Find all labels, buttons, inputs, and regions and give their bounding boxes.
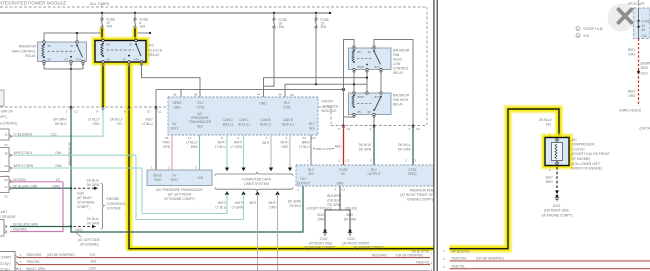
svg-text:20A: 20A xyxy=(140,25,147,29)
svg-text:PNK/: PNK/ xyxy=(163,141,171,145)
svg-text:ENGINE: ENGINE xyxy=(107,197,121,201)
svg-text:OUTPUT: OUTPUT xyxy=(297,182,310,186)
svg-text:RED/YEL: RED/YEL xyxy=(416,261,430,265)
svg-text:BLK/: BLK/ xyxy=(347,213,354,217)
svg-text:11: 11 xyxy=(188,136,191,140)
fuse 16 30A xyxy=(273,13,287,29)
svg-text:87A: 87A xyxy=(76,57,81,61)
svg-text:RADIATOR: RADIATOR xyxy=(393,94,410,98)
svg-text:C1: C1 xyxy=(4,143,8,147)
svg-text:RLY: RLY xyxy=(198,101,205,105)
svg-text:C3: C3 xyxy=(312,136,316,140)
svg-text:S217: S217 xyxy=(641,71,649,75)
bottom row 3 BLK/LT GRN Z169 xyxy=(18,266,433,271)
fuse 8 20A xyxy=(134,13,148,29)
svg-text:LANT: LANT xyxy=(0,210,7,214)
label A/C compressor clutch xyxy=(572,138,610,171)
svg-text:BLK/: BLK/ xyxy=(146,118,153,122)
wire LT BLU/BRN FCM sig to transducer xyxy=(186,135,199,170)
svg-text:N CONTROL: N CONTROL xyxy=(0,122,18,126)
svg-text:86: 86 xyxy=(48,44,52,48)
svg-text:87A: 87A xyxy=(134,58,139,62)
svg-text:RED/ORG: RED/ORG xyxy=(27,253,42,257)
module: radiator fan xyxy=(296,165,434,186)
svg-text:30: 30 xyxy=(368,110,372,114)
wire row lines to left connector xyxy=(10,155,142,188)
svg-text:18: 18 xyxy=(165,136,169,140)
svg-text:SENS: SENS xyxy=(153,174,162,178)
svg-text:DK BLU/YEL: DK BLU/YEL xyxy=(452,250,471,254)
svg-text:WHT/: WHT/ xyxy=(234,141,242,145)
svg-text:CONTROLS: CONTROLS xyxy=(107,202,127,206)
svg-text:EXCEPT POLICE: EXCEPT POLICE xyxy=(307,207,332,211)
svg-text:A-START: A-START xyxy=(0,256,11,260)
svg-text:DK GRN/: DK GRN/ xyxy=(288,199,301,203)
junction dots on IPM connector row y125.5 xyxy=(342,124,414,126)
svg-text:CLUTCH: CLUTCH xyxy=(149,48,163,52)
svg-text:FAN CONTROL: FAN CONTROL xyxy=(12,49,36,53)
wire fuse19 to relay coils xyxy=(285,28,367,97)
svg-text:(OR BLK/: (OR BLK/ xyxy=(327,199,341,203)
svg-text:LINES SYSTEM: LINES SYSTEM xyxy=(244,182,269,186)
fuse 22 40A xyxy=(101,13,115,29)
svg-text:26: 26 xyxy=(173,93,177,97)
CAN wires below brace xyxy=(136,155,280,271)
svg-text:C2: C2 xyxy=(346,159,350,163)
svg-text:RLY: RLY xyxy=(308,168,315,172)
svg-text:GRN: GRN xyxy=(163,145,171,149)
svg-text:AWD & 6.5L: AWD & 6.5L xyxy=(316,147,333,151)
svg-text:CAN B: CAN B xyxy=(283,118,293,122)
wire BLK/BRN clutch to ground xyxy=(546,167,559,194)
svg-text:YEL: YEL xyxy=(116,122,122,126)
svg-text:SPLY: SPLY xyxy=(171,127,180,131)
svg-text:EARLY BUILD: EARLY BUILD xyxy=(620,109,642,113)
junction dots on IPM connector row y107 xyxy=(70,106,157,108)
svg-text:CONTROL: CONTROL xyxy=(322,104,339,108)
svg-text:DK GRN: DK GRN xyxy=(398,148,411,152)
svg-text:ENGINE COMPT): ENGINE COMPT) xyxy=(407,197,433,201)
coolant temperature sensor (left clipped) xyxy=(0,210,38,236)
svg-text:(AT RIGHT FRONT OF: (AT RIGHT FRONT OF xyxy=(400,193,433,197)
svg-text:(AT LEFT SIDE: (AT LEFT SIDE xyxy=(78,238,100,242)
svg-text:87: 87 xyxy=(123,58,127,62)
wire DK BLU/DK GRN rly output xyxy=(359,126,374,166)
svg-text:LT BLU/: LT BLU/ xyxy=(186,141,198,145)
svg-text:RADIATOR: RADIATOR xyxy=(393,49,410,53)
svg-text:DK BLU/: DK BLU/ xyxy=(539,118,552,122)
svg-text:ORG: ORG xyxy=(92,122,100,126)
wire DK BLU/DK GRN ctrl feed xyxy=(398,126,413,166)
svg-text:RED/: RED/ xyxy=(628,48,636,52)
svg-text:MPT): MPT) xyxy=(0,115,7,119)
svg-text:CAN C: CAN C xyxy=(239,118,250,122)
svg-text:SYSTEM: SYSTEM xyxy=(107,207,121,211)
svg-text:DK GRN: DK GRN xyxy=(87,221,100,225)
svg-text:CTRL: CTRL xyxy=(408,168,417,172)
svg-text:RLY: RLY xyxy=(301,177,308,181)
label radiator fan xyxy=(400,188,433,201)
wire DK GRN/DK BLU main vertical xyxy=(70,107,72,228)
label radiator fan control relay xyxy=(12,45,37,59)
svg-text:G101: G101 xyxy=(347,237,355,241)
svg-text:30: 30 xyxy=(129,43,133,47)
right page: dashed lead above fuse xyxy=(638,0,640,8)
svg-text:85: 85 xyxy=(358,110,362,114)
bottom row 2 RED/YEL A23 xyxy=(18,260,433,265)
svg-text:6.5L: 6.5L xyxy=(584,34,590,38)
svg-text:OF ENGINE): OF ENGINE) xyxy=(80,243,99,247)
svg-text:COMPT): COMPT) xyxy=(77,205,90,209)
wire A/C relay 87A to FCM pin 36 xyxy=(142,62,201,97)
right page bottom connector boxes xyxy=(443,249,445,269)
svg-text:C2: C2 xyxy=(4,195,8,199)
svg-text:10A: 10A xyxy=(641,34,648,38)
svg-text:20: 20 xyxy=(5,178,9,182)
relay: radiator fan high relay xyxy=(349,92,392,116)
svg-text:RADIATOR: RADIATOR xyxy=(19,45,37,49)
svg-text:G102: G102 xyxy=(320,237,328,241)
svg-text:BLK/LT GRN: BLK/LT GRN xyxy=(27,267,46,271)
svg-text:DK GRN: DK GRN xyxy=(359,148,372,152)
svg-text:FRONT: FRONT xyxy=(322,100,335,104)
svg-text:RELAY: RELAY xyxy=(149,53,161,57)
svg-text:DK GRN: DK GRN xyxy=(87,183,100,187)
svg-text:POLICE: POLICE xyxy=(346,207,358,211)
left edge note above connector xyxy=(0,90,18,126)
svg-text:G102: G102 xyxy=(553,204,561,208)
highlighted wire fuse8 to A/C clutch relay 30 xyxy=(133,28,138,41)
svg-text:GND: GND xyxy=(259,102,267,106)
label DK BLU/YEL near corner xyxy=(539,118,552,127)
svg-text:EAR OF: EAR OF xyxy=(1,110,13,114)
label A/C pressure transducer xyxy=(156,188,203,201)
svg-text:86: 86 xyxy=(358,50,362,54)
svg-text:SENS: SENS xyxy=(173,101,182,105)
right page row 3 RED/YEL xyxy=(450,264,650,268)
svg-text:RELAY: RELAY xyxy=(393,71,404,75)
svg-text:DK BLU: DK BLU xyxy=(289,204,301,208)
svg-text:OF ENGINE COMPT): OF ENGINE COMPT) xyxy=(164,197,195,201)
svg-text:YEL: YEL xyxy=(545,122,551,126)
label front control module xyxy=(322,100,339,114)
radiator fan bottom pins xyxy=(298,188,346,192)
svg-text:C1: C1 xyxy=(158,110,162,114)
svg-text:BUS (+): BUS (+) xyxy=(282,122,293,126)
bottom row 1 RED/ORG F23 xyxy=(18,252,433,258)
svg-text:CLUTCH: CLUTCH xyxy=(572,147,586,151)
wire B+ bus xyxy=(0,12,331,14)
svg-text:FAN: FAN xyxy=(393,53,400,57)
left edge connector pin chevrons xyxy=(5,135,12,233)
svg-text:CONTROL: CONTROL xyxy=(393,67,409,71)
svg-text:RED/: RED/ xyxy=(628,90,636,94)
label A/C clutch relay xyxy=(149,44,163,58)
engine controls system arrows and brace xyxy=(74,178,127,232)
wire DK GRN/DK BLU bottom run to radiator fan rly output xyxy=(71,186,303,232)
svg-text:(AT REAR: (AT REAR xyxy=(77,196,92,200)
svg-text:COMPRESSOR: COMPRESSOR xyxy=(572,143,596,147)
svg-text:(EXCEPT 6.5L ON FRONT: (EXCEPT 6.5L ON FRONT xyxy=(572,152,610,156)
svg-text:GND: GND xyxy=(173,105,181,109)
svg-text:SCD B(+): SCD B(+) xyxy=(0,262,11,266)
svg-text:WHT/LT BLU: WHT/LT BLU xyxy=(14,151,33,155)
highlighted wire fuse22 to A/C clutch relay 86 xyxy=(100,28,105,41)
svg-text:30A: 30A xyxy=(279,25,286,29)
svg-text:OF ENGINE): OF ENGINE) xyxy=(572,157,591,161)
svg-text:A/C PRESSURE TRANSDUCER: A/C PRESSURE TRANSDUCER xyxy=(156,188,203,192)
left connector row 11 LT BLU/ORG xyxy=(0,129,57,140)
svg-text:35: 35 xyxy=(5,151,9,155)
svg-text:RED: RED xyxy=(335,145,342,149)
svg-text:FUSE: FUSE xyxy=(642,20,650,24)
svg-text:87: 87 xyxy=(65,57,69,61)
svg-text:LT BLU: LT BLU xyxy=(299,145,310,149)
svg-text:SIG: SIG xyxy=(198,176,204,180)
svg-text:INTEGRATED POWER MODULE: INTEGRATED POWER MODULE xyxy=(0,1,66,6)
svg-text:RED/YEL: RED/YEL xyxy=(452,264,466,268)
svg-text:CAN B: CAN B xyxy=(261,118,271,122)
labels below brace xyxy=(215,199,301,209)
wire relay1-87A to relay2-87A xyxy=(380,70,382,94)
svg-text:(OR DK: (OR DK xyxy=(640,127,650,131)
svg-text:VIO/ORG: VIO/ORG xyxy=(13,228,27,232)
svg-text:D64: D64 xyxy=(56,151,62,155)
svg-text:GND: GND xyxy=(154,178,162,182)
svg-text:(ON RIGHT SIDE: (ON RIGHT SIDE xyxy=(544,209,569,213)
module: A/C pressure transducer xyxy=(147,166,212,186)
ground G102 left page xyxy=(304,229,335,249)
svg-text:DK GRN/: DK GRN/ xyxy=(53,118,66,122)
svg-text:LT GRN: LT GRN xyxy=(232,205,244,209)
component: A/C compressor clutch coil (highlighted) xyxy=(545,133,569,172)
svg-text:RED/ORG: RED/ORG xyxy=(452,256,467,260)
svg-text:HIGH/: HIGH/ xyxy=(393,58,402,62)
right page: RED/ORG dashed wire with S217 xyxy=(620,39,650,131)
svg-text:DK GRN: DK GRN xyxy=(344,218,357,222)
relay: radiator fan control relay xyxy=(38,41,87,63)
wire node to radiator fan high/low relay 87 xyxy=(264,77,368,79)
highlighted A/C clutch relay pin85 wire xyxy=(101,62,106,107)
svg-text:DK BLU/: DK BLU/ xyxy=(359,143,372,147)
svg-text:RELAY: RELAY xyxy=(25,54,37,58)
svg-text:RLY: RLY xyxy=(371,168,378,172)
svg-text:LT BLU/: LT BLU/ xyxy=(88,118,100,122)
svg-text:DK BLU/: DK BLU/ xyxy=(110,118,123,122)
svg-text:BLK/: BLK/ xyxy=(546,176,553,180)
svg-text:SIG: SIG xyxy=(309,127,315,131)
svg-text:LT BLU: LT BLU xyxy=(215,145,226,149)
svg-text:DK BLU/DK GRN: DK BLU/DK GRN xyxy=(13,222,38,226)
svg-text:ORG: ORG xyxy=(281,145,289,149)
wire radiator fan control relay outputs to pin 1 C2 xyxy=(44,62,83,107)
svg-text:D65: D65 xyxy=(56,164,62,168)
svg-text:WHT/: WHT/ xyxy=(280,141,288,145)
relay: A/C clutch relay (highlighted) xyxy=(95,39,146,63)
svg-text:DK BLU/: DK BLU/ xyxy=(87,217,100,221)
svg-text:RADIATOR FAN: RADIATOR FAN xyxy=(410,188,434,192)
svg-text:87: 87 xyxy=(361,95,365,99)
svg-text:87A: 87A xyxy=(375,95,380,99)
svg-text:SIG: SIG xyxy=(308,172,314,176)
svg-text:85: 85 xyxy=(48,57,52,61)
wire VIO/ORG loop to coolant sensor xyxy=(10,182,63,232)
wire color labels under IPM connector xyxy=(53,118,153,127)
svg-text:WHT/: WHT/ xyxy=(218,201,226,205)
svg-text:A/C: A/C xyxy=(149,44,155,48)
wire BLK sens line FCM pin 26 xyxy=(156,88,345,107)
svg-text:C1: C1 xyxy=(342,188,346,192)
svg-text:LT BLU: LT BLU xyxy=(142,122,153,126)
svg-text:CAN C: CAN C xyxy=(223,118,234,122)
wire WHT/LT BLU CAN xyxy=(215,135,229,171)
svg-text:B+: B+ xyxy=(342,172,346,176)
svg-text:C2: C2 xyxy=(416,127,420,131)
svg-text:COMPUTER DATA: COMPUTER DATA xyxy=(242,177,272,181)
svg-text:DK BLU/YEL: DK BLU/YEL xyxy=(412,250,431,254)
svg-text:E SENSOR: E SENSOR xyxy=(0,215,16,219)
svg-text:87: 87 xyxy=(361,65,365,69)
page divider double line xyxy=(434,0,437,271)
wire RED fuse B+ xyxy=(335,126,344,166)
svg-text:40: 40 xyxy=(279,93,283,97)
ground G101 left page xyxy=(342,229,384,249)
svg-text:BUS (-): BUS (-) xyxy=(223,122,234,126)
svg-text:SPLY: SPLY xyxy=(171,178,180,182)
svg-text:C13: C13 xyxy=(51,132,57,136)
wire WHT/ORG CAN xyxy=(280,135,292,171)
svg-text:WHT: WHT xyxy=(262,141,269,145)
IPM connector pin labels xyxy=(66,110,162,114)
highlighted A/C clutch relay pin87 wire DK BLU/YEL down and across bottom xyxy=(127,62,434,249)
label (AT LEFT SIDE OF ENGINE) xyxy=(76,233,100,247)
svg-text:WHT/: WHT/ xyxy=(268,201,276,205)
svg-text:BRN: BRN xyxy=(191,145,198,149)
svg-text:LOW: LOW xyxy=(393,62,400,66)
right page: fuse box dashed xyxy=(634,8,650,39)
svg-text:BUS (-): BUS (-) xyxy=(260,122,271,126)
connector labels above radiator fan box xyxy=(339,159,417,163)
svg-text:86: 86 xyxy=(107,43,111,47)
svg-text:(BEHIND: (BEHIND xyxy=(641,62,650,66)
relay: radiator fan high/low control relay xyxy=(349,47,392,71)
bottom left connector block xyxy=(0,252,18,271)
wire DK BLU/DK GRN to coolant sensor xyxy=(10,226,71,228)
wire relay2-30 to connector xyxy=(373,115,375,126)
svg-text:WHT/LT GRN: WHT/LT GRN xyxy=(14,164,34,168)
svg-text:47: 47 xyxy=(257,93,261,97)
svg-text:DK BLU: DK BLU xyxy=(55,122,67,126)
svg-text:EXCEPT 6.5L: EXCEPT 6.5L xyxy=(584,27,604,31)
svg-text:(AT LEFT REAR: (AT LEFT REAR xyxy=(168,192,192,196)
svg-text:ORG: ORG xyxy=(628,94,636,98)
svg-text:OF ENGINE COMPT): OF ENGINE COMPT) xyxy=(542,213,573,217)
svg-text:BRN: BRN xyxy=(546,180,553,184)
svg-text:A23: A23 xyxy=(91,260,97,264)
svg-text:10: 10 xyxy=(147,110,151,114)
svg-text:GND: GND xyxy=(336,182,344,186)
svg-text:BRN: BRN xyxy=(318,218,325,222)
wire relay1-87 to relay2-87 xyxy=(366,70,368,94)
svg-text:52: 52 xyxy=(291,93,295,97)
svg-text:OR START: OR START xyxy=(628,2,646,6)
wire BLK/BRN ground split xyxy=(307,186,358,231)
svg-text:30: 30 xyxy=(368,50,372,54)
svg-text:F23: F23 xyxy=(90,253,96,257)
ground G102 right page xyxy=(542,195,573,218)
svg-text:OF ENGINE: OF ENGINE xyxy=(77,200,95,204)
svg-text:FAN HIGH: FAN HIGH xyxy=(393,98,409,102)
right page: highlighted DK BLU/YEL wire to compressor clutch xyxy=(450,109,560,249)
svg-text:36: 36 xyxy=(194,93,198,97)
integrated power module dashed boundary xyxy=(0,7,427,126)
svg-text:LT BLU/ORG: LT BLU/ORG xyxy=(14,132,33,136)
svg-text:C1: C1 xyxy=(413,159,417,163)
wire WHT/LT GRN CAN xyxy=(231,135,246,171)
svg-text:OF ENGINE COMPT): OF ENGINE COMPT) xyxy=(353,245,384,249)
svg-text:CTRL: CTRL xyxy=(196,105,205,109)
connector notches at IPM pin rows xyxy=(70,108,415,129)
svg-text:ORG: ORG xyxy=(269,205,277,209)
svg-text:BLK/: BLK/ xyxy=(318,213,325,217)
FCM bottom pin numbers xyxy=(165,136,316,140)
svg-text:87A: 87A xyxy=(375,65,380,69)
svg-text:LT BLU: LT BLU xyxy=(215,205,226,209)
svg-text:ALL TIMES: ALL TIMES xyxy=(90,2,110,6)
wire relay feed from fuse22 node to radiator fan control relay xyxy=(44,32,102,42)
module: front control module xyxy=(168,93,318,136)
svg-text:FEED: FEED xyxy=(408,172,417,176)
computer data lines system braces xyxy=(215,172,293,190)
right page row 2 RED/ORG xyxy=(450,256,650,261)
wire BRN/LT BLU rly sig xyxy=(299,135,334,165)
svg-text:RED/ORG: RED/ORG xyxy=(372,253,387,257)
svg-text:30A: 30A xyxy=(321,25,328,29)
connector pin labels y129 xyxy=(338,127,420,131)
svg-text:S110: S110 xyxy=(77,191,84,195)
label radiator fan high relay xyxy=(393,94,410,107)
svg-text:(OR DK GRN/PNK): (OR DK GRN/PNK) xyxy=(396,253,424,257)
svg-text:DK BLU/: DK BLU/ xyxy=(398,143,411,147)
svg-text:FUSE: FUSE xyxy=(339,168,348,172)
svg-text:85: 85 xyxy=(107,58,111,62)
svg-text:(OR DK GRN/PNK): (OR DK GRN/PNK) xyxy=(47,253,75,257)
svg-text:RED/YEL: RED/YEL xyxy=(27,260,41,264)
svg-text:LT GRN: LT GRN xyxy=(231,145,243,149)
svg-text:DK BLU/: DK BLU/ xyxy=(87,178,100,182)
svg-text:S101: S101 xyxy=(76,228,84,232)
svg-text:11: 11 xyxy=(5,133,8,137)
wire relay loop high/low relay pin86 and pin30 xyxy=(344,40,414,126)
left connector rows 20/27 xyxy=(0,175,60,199)
svg-text:SIG: SIG xyxy=(197,124,203,128)
wire stub right of fuse8 node xyxy=(138,32,152,34)
svg-text:BRN/: BRN/ xyxy=(302,141,310,145)
right page: close X icon xyxy=(608,4,636,32)
svg-text:24: 24 xyxy=(303,136,307,140)
svg-text:34: 34 xyxy=(5,164,9,168)
svg-text:RLY: RLY xyxy=(309,122,316,126)
svg-text:WHT: WHT xyxy=(249,201,256,205)
svg-text:RELAY: RELAY xyxy=(393,103,404,107)
left connector rows 35/34 xyxy=(0,143,62,172)
svg-text:BLK/BRN: BLK/BRN xyxy=(327,194,341,198)
svg-text:(6.5L LOWER LEFT: (6.5L LOWER LEFT xyxy=(572,162,600,166)
svg-text:OF ENGINE COMPT): OF ENGINE COMPT) xyxy=(304,245,335,249)
wire relay1-85 to relay2-86 xyxy=(353,70,355,94)
label radiator fan high/low control relay xyxy=(393,49,410,76)
fuse 19 30A xyxy=(315,13,329,29)
